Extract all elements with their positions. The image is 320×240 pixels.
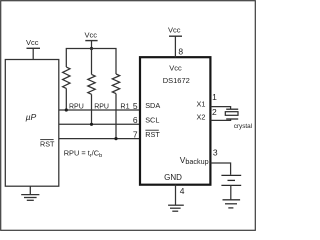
svg-text:R1: R1 <box>120 102 129 111</box>
wire GND pin 4 <box>175 185 177 206</box>
resistor R1 <box>112 74 119 139</box>
junction dot (RPU2 / SCL) <box>90 123 93 126</box>
svg-text:crystal: crystal <box>234 123 252 130</box>
svg-text:RST: RST <box>40 139 55 148</box>
svg-text:GND: GND <box>164 173 182 182</box>
wire X1 (pin 1 to crystal) <box>211 107 231 110</box>
wire X2 (pin 2 to crystal) <box>211 119 231 120</box>
svg-text:7: 7 <box>133 129 138 139</box>
svg-text:RST: RST <box>145 130 160 139</box>
svg-text:RPU = tr/Cb: RPU = tr/Cb <box>64 149 102 159</box>
Vcc supply symbol (µP) <box>27 48 41 59</box>
wire Vbackup (pin 3 to battery) <box>211 163 231 175</box>
svg-text:Vcc: Vcc <box>168 26 181 35</box>
junction dot (R1 / RST) <box>114 137 117 140</box>
Vcc supply symbol (pull-up rail) <box>85 41 97 49</box>
resistor RPU (1st) <box>63 67 70 110</box>
wire: resistor RPU2 stub <box>91 49 93 75</box>
svg-text:Vcc: Vcc <box>169 64 182 73</box>
svg-text:X2: X2 <box>197 112 206 121</box>
svg-text:SDA: SDA <box>145 101 160 110</box>
junction dot (rail / Vcc) <box>90 47 93 50</box>
svg-text:Vbackup: Vbackup <box>180 155 209 166</box>
backup battery <box>221 175 241 185</box>
ground symbol (µP) <box>21 186 39 200</box>
svg-text:5: 5 <box>133 101 138 111</box>
microprocessor µP box <box>5 60 59 187</box>
svg-text:SCL: SCL <box>145 116 159 125</box>
svg-text:X1: X1 <box>197 99 206 108</box>
crystal Y1 <box>225 109 238 119</box>
Vcc supply symbol (DS1672) <box>169 36 182 57</box>
wire RST (µP to DS1672) <box>59 138 140 140</box>
svg-text:Vcc: Vcc <box>26 38 39 47</box>
resistor RPU (2nd) <box>88 74 95 124</box>
RST label (µP, active-low) <box>40 139 55 148</box>
svg-text:4: 4 <box>180 186 185 196</box>
svg-text:3: 3 <box>213 148 218 158</box>
RST pin label (DS1672, active-low) <box>145 130 160 139</box>
svg-text:8: 8 <box>178 47 183 57</box>
svg-text:DS1672: DS1672 <box>163 76 190 85</box>
DS1672 IC box U1 <box>140 57 210 185</box>
ground symbol (DS1672) <box>168 205 184 211</box>
wire SCL (µP to DS1672) <box>59 123 140 125</box>
svg-text:6: 6 <box>133 115 138 125</box>
junction dot (RPU1 / SDA) <box>65 108 68 111</box>
svg-text:Vcc: Vcc <box>85 31 98 40</box>
wire battery to ground <box>230 185 232 199</box>
svg-text:µP: µP <box>26 112 37 122</box>
wire: pull-up rail <box>66 49 116 75</box>
wire SDA (µP to DS1672) <box>59 109 140 111</box>
svg-text:1: 1 <box>212 92 217 102</box>
ground symbol (battery) <box>223 200 241 208</box>
svg-text:2: 2 <box>212 107 217 117</box>
